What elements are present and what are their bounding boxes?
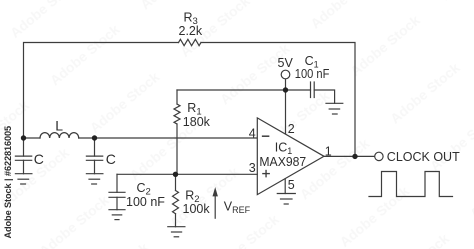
svg-text:180k: 180k	[183, 115, 211, 129]
wire pin5 to ground	[284, 179, 286, 194]
op-amp IC1 MAX987 triangle	[257, 118, 324, 195]
svg-text:C: C	[34, 151, 44, 167]
node B (L / second C junction)	[92, 135, 97, 140]
CLOCK OUT terminal	[375, 152, 383, 160]
wire R1 top to 5V node	[177, 89, 286, 91]
node E (output junction)	[352, 154, 357, 159]
VREF arrowhead	[213, 187, 218, 196]
svg-text:100 nF: 100 nF	[295, 67, 330, 81]
svg-text:100k: 100k	[183, 202, 211, 216]
ground (C2)	[109, 210, 125, 220]
svg-text:2.2k: 2.2k	[179, 24, 203, 38]
svg-text:3: 3	[249, 161, 256, 175]
wire R3-to-right-down-to-output	[201, 43, 355, 157]
wire pin2	[285, 90, 287, 135]
capacitor C2	[109, 174, 125, 209]
inductor L	[40, 133, 79, 138]
svg-text:5V: 5V	[278, 56, 294, 70]
node D (R1/R2/C2 junction)	[173, 172, 178, 177]
capacitor C1	[286, 82, 335, 103]
wire L to pin4	[79, 137, 258, 139]
resistor R2	[173, 174, 179, 226]
svg-text:C: C	[106, 151, 116, 167]
wire output pin1	[324, 155, 374, 157]
capacitor C (left)	[15, 138, 31, 174]
svg-text:4: 4	[249, 127, 256, 141]
svg-text:100 nF: 100 nF	[126, 195, 165, 209]
svg-text:MAX987: MAX987	[259, 155, 306, 169]
wire main horizontal input rail	[24, 137, 41, 139]
5V terminal	[285, 79, 287, 90]
svg-text:2: 2	[288, 122, 295, 136]
svg-text:L: L	[55, 118, 63, 134]
node A (left C junction)	[21, 135, 26, 140]
resistor R1	[174, 90, 180, 174]
ground (C1)	[326, 103, 343, 114]
svg-text:CLOCK OUT: CLOCK OUT	[387, 150, 460, 164]
square wave	[369, 172, 453, 197]
ground (second C)	[86, 174, 103, 184]
svg-text:5: 5	[288, 178, 295, 192]
minus sign pin4	[263, 135, 269, 137]
ground (pin5)	[277, 194, 295, 205]
capacitor C (second)	[86, 138, 102, 174]
ground (left C)	[15, 174, 32, 184]
node C (5V rail junction)	[283, 87, 288, 92]
wire pin3	[117, 173, 257, 175]
svg-text:Adobe Stock | #622816005: Adobe Stock | #622816005	[3, 126, 13, 239]
plus sign pin3	[263, 171, 269, 177]
VREF arrow	[214, 196, 216, 219]
resistor R3	[179, 39, 202, 45]
wire top left-to-R3	[24, 43, 179, 139]
svg-text:1: 1	[325, 144, 332, 158]
ground (R2)	[168, 227, 185, 237]
